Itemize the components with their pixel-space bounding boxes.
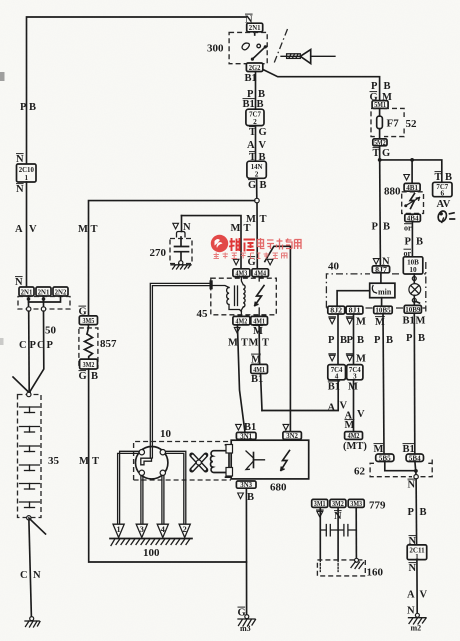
connector 3M2 interference (330, 499, 346, 508)
connector 4M1 inline (251, 364, 268, 373)
ground m2 (409, 613, 427, 632)
connector 8J2 (328, 306, 345, 315)
wire 2N2 link inside block (29, 296, 61, 302)
wire 10B9 to 5B4 (413, 313, 416, 454)
connector 7C7 pin 2 (246, 109, 264, 126)
spark plug arrow 4 (157, 524, 168, 537)
label B1 above 5B4 (403, 443, 415, 445)
wire 8J1 to 7C4-3 (353, 314, 355, 365)
resistor 857 zigzag (85, 334, 93, 359)
marker triangle + B1 above 3N1 (236, 424, 242, 430)
coil internal connections (213, 277, 259, 317)
resistor 857 dashed housing (79, 328, 98, 368)
ignition module 680 box (231, 440, 309, 479)
wire stub to capacitor 270 (181, 216, 183, 232)
label G B (248, 179, 256, 181)
label G above 3M5 (79, 305, 87, 307)
instrument cluster 40 dash-dot border (326, 262, 425, 312)
switch lever (251, 45, 267, 60)
distributor body circle (136, 447, 168, 479)
battery top terminal ring (27, 392, 31, 396)
marker triangle under 8J2 (329, 318, 335, 324)
marker triangle under 4M2 coil (234, 327, 240, 333)
key shaft hatched (287, 54, 301, 59)
marker triangle above 3N2 (283, 424, 289, 430)
ignition coil 45 dashed housing (211, 278, 276, 315)
contact breaker cam X (192, 455, 206, 470)
watermark title strokes (229, 238, 255, 252)
wire 4M1 inline down to B1 link (261, 374, 263, 411)
terminal ring a (27, 307, 31, 311)
wire top feed from battery column to ignition switch (27, 17, 247, 164)
wire 5B5 link to 5B4 (385, 462, 416, 471)
pickup coil (211, 445, 233, 477)
label T G (249, 126, 256, 128)
wire junction down to coil 4M4 (256, 203, 258, 269)
connector 2C11 pin 1 (407, 545, 427, 561)
label N under 62 (408, 478, 416, 480)
marker triangle under 3M1 (317, 512, 323, 518)
switch contact circle (257, 44, 261, 48)
wire 2C10 to connector 2N1 (26, 182, 28, 287)
node N above 2C10 (16, 153, 24, 155)
connector 4M3 (233, 268, 250, 277)
junction block dashed (starter contact group) (18, 297, 70, 310)
connector 10B5 (374, 306, 393, 315)
spark plug arrow 1 (113, 524, 124, 537)
watermark logo disk (211, 235, 228, 252)
distributor terminal bottom-right (160, 470, 165, 475)
wire mid junction down to 4B1 (411, 162, 413, 184)
HT lead double wire from coil to distributor (150, 283, 211, 458)
connector 3N1 (236, 431, 256, 440)
connector 8J7 (372, 265, 389, 274)
connector 4M2 MT (345, 431, 363, 440)
connector 4M2 coil (233, 316, 250, 325)
marker triangle above 4B1 (404, 175, 410, 181)
module pickup tab lower (226, 468, 233, 477)
marker G above 4M4 (248, 256, 256, 258)
watermark subtitle strokes (214, 253, 288, 259)
wire battery to ground (29, 520, 32, 617)
label G B under 3M2 (79, 370, 87, 372)
plug lead 1 double wire (118, 451, 140, 523)
bus wire to lamp column and 7C7-6 (380, 160, 442, 182)
marker triangle above 4M3 (233, 259, 239, 265)
wire coil 4M1 down to 4M1 inline (258, 325, 261, 365)
module transistor symbol (246, 451, 265, 470)
switch blade at battery output (29, 518, 46, 534)
fuse F7 (377, 116, 383, 129)
connector 2N1 ignition (247, 23, 263, 32)
marker triangle M above 7C4-3 (347, 355, 353, 361)
connector 2G2 (246, 63, 262, 72)
wire 3M2 down into 160 (337, 507, 339, 560)
label M above 4M2 (345, 419, 355, 421)
marker triangle + B under 3N3 (238, 493, 244, 499)
connector 10B pin 10 (403, 257, 423, 274)
plug lead 4 double wire (162, 475, 164, 523)
wire 3N3 to ground m3 (245, 488, 247, 615)
junction dot bus left (378, 158, 382, 162)
wire from cap 270 into 4M3 (182, 216, 242, 269)
label T G right (373, 147, 380, 149)
wire 2C11 to ground m2 (416, 560, 418, 614)
connector 4M1 coil (251, 316, 268, 325)
key bow (300, 50, 310, 64)
wire 10B5 to 5B5 (383, 314, 384, 454)
fuel gauge min (370, 283, 395, 298)
label G at m3 (238, 606, 246, 608)
wire 3M3 down to ground on 160 (355, 507, 357, 558)
distributor terminal top-left (139, 450, 144, 455)
node N above ignition switch (245, 13, 253, 15)
battery cells (20, 407, 40, 508)
spark plug arrow 2 (179, 524, 190, 537)
connector 4M4 (252, 268, 269, 277)
connector 3M1 (312, 499, 328, 508)
connector 2N2 (53, 287, 68, 296)
ballast element bolt with arrow (404, 194, 419, 209)
wire 10B to lamp (413, 274, 415, 284)
wire 5M2 to junction (379, 146, 381, 160)
connector 7C7 pin 6 (433, 182, 452, 197)
label G M (370, 91, 378, 93)
cap ground hatch (171, 265, 191, 269)
wire ring-b down then diagonal to battery junction (29, 311, 44, 393)
radio unit 160 dashed housing (317, 560, 365, 576)
connector cap hat (177, 232, 186, 237)
suppression capacitor a (320, 525, 338, 536)
key icon small (437, 210, 455, 223)
ground bottom-left (25, 617, 40, 627)
ground ring on 160 (355, 558, 359, 562)
wire 7C4-3 M down to 4M2 (353, 380, 355, 432)
node N below 2C10 (16, 183, 24, 185)
key shaft line (281, 55, 335, 57)
wire 2G2 down to 7C7 (255, 72, 257, 110)
connector 7C4 pin 3 (347, 365, 363, 381)
spark plug arrow 3 (136, 524, 147, 537)
wire junction to MT branch (left long run) (89, 201, 255, 316)
fuse holder 52 dashed (371, 108, 404, 136)
ground m3 (238, 615, 256, 633)
label or lower (404, 248, 412, 250)
connector 2N1 a (19, 287, 34, 296)
label M under 10B5 (375, 316, 385, 318)
connector 3N2 (283, 431, 302, 440)
ignition switch 300 housing dashed (229, 32, 267, 63)
wire 14N to junction ring (256, 178, 258, 198)
plug lead 3 double wire (141, 475, 143, 523)
module spark bolt (281, 451, 290, 471)
label M above 4M1 inline (251, 353, 261, 355)
marker triangle above 7C4-4 (329, 355, 335, 361)
wire 2G2 feed to right column (263, 70, 380, 101)
junction dot a (27, 297, 31, 301)
connector 3M5 (79, 316, 97, 325)
engine ground bar 100 hatched (110, 539, 192, 546)
HT terminal bar (210, 280, 213, 289)
junction dot b (42, 297, 46, 301)
wire 8J7 to gauge (380, 273, 382, 283)
distributor terminal top-right (160, 450, 165, 455)
connector 4B4 (405, 213, 421, 222)
label T B (249, 151, 256, 153)
connector 7C4 pin 4 (328, 365, 346, 381)
label N under 3M2 (334, 510, 342, 512)
label B1 under 7C4-4 (328, 380, 340, 382)
dotted wire tails inside 160 (320, 560, 338, 572)
wire fuse to 5M2 (379, 129, 381, 139)
label N under 2C11 (409, 562, 417, 564)
wire 7C4-4 B1 link to coil 4M1 (262, 380, 338, 411)
connector 3M2 (80, 359, 98, 369)
wire 5B4 stub (415, 462, 416, 475)
connector 10B9 (404, 305, 421, 314)
plug lead 2 double wire (166, 451, 186, 523)
wire diagonal from 3N2 riser into 4M4 (265, 246, 291, 431)
distributor 10 dashed housing (134, 442, 231, 481)
wire 5M1 to fuse (379, 108, 381, 116)
wire 3M1 down into 160 (319, 507, 321, 560)
lamp terminal ring bottom (412, 298, 416, 302)
connector 5B4 (406, 453, 423, 462)
capacitor plates (175, 237, 189, 261)
node N above 2N1 (15, 276, 23, 278)
terminal ring 62 out (414, 475, 418, 479)
coil secondary winding (243, 285, 245, 307)
wire coil 4M2 down to 3N1 (237, 325, 245, 433)
capacitor 270 dashed housing (170, 239, 192, 264)
connector 2C10 pin 1 (17, 164, 37, 182)
wire 62 down to 2C11 (415, 479, 418, 545)
wire 3M2 long run down and across to m3 ground wire (89, 369, 247, 562)
module pickup tab upper (226, 445, 233, 454)
connector 14N pin 2 (247, 161, 266, 178)
connector 5M1 (372, 100, 388, 109)
label or upper (404, 223, 412, 225)
wire ring-a down to battery junction (28, 311, 31, 393)
connector 8J1 (346, 306, 363, 315)
marker triangle + N above 8J7 (373, 259, 379, 265)
junction dot X (27, 391, 31, 395)
distributor terminal bottom-left (139, 470, 144, 475)
mechanical link dash-dot (274, 29, 288, 65)
connector 3N3 (236, 480, 256, 489)
ground hatch on 160 (351, 562, 364, 569)
marker triangle above 4M4 right (267, 259, 273, 265)
label M above 5B5 (374, 443, 384, 445)
wire 2N1 into switch (254, 32, 256, 35)
coil spark bolt (255, 286, 264, 306)
ballast resistor 880 dashed housing (402, 192, 424, 214)
wire junction down to 8J7 (P B) (379, 162, 382, 266)
wire 7C7 to 14N (255, 126, 257, 162)
terminal ring b (41, 307, 45, 311)
label M under 4M1 coil (253, 325, 263, 327)
junction ring central (255, 198, 260, 203)
scan smudge left edge (0, 72, 5, 81)
lamp terminal ring top (412, 277, 416, 281)
battery 35 dashed housing (18, 395, 42, 518)
warning lamp (409, 284, 421, 296)
wire 3M5 to resistor (87, 325, 88, 334)
connector 3M3 (348, 499, 364, 508)
label B1 B central (243, 98, 255, 100)
coil core (235, 286, 238, 306)
distributor rotor (141, 458, 152, 465)
junction dot 62 (414, 469, 418, 473)
suppression capacitor b (338, 525, 356, 536)
junction dot bus mid (410, 158, 414, 162)
wire crossing stub at junction (13, 377, 29, 393)
wire 2N1a stub (28, 296, 30, 307)
label T B right (435, 171, 442, 173)
coil primary winding (227, 288, 229, 305)
marker triangle M under 8J1 (347, 318, 353, 324)
wire lamp to 10B9 (414, 295, 419, 305)
wire 8J2 to 7C4-4 (337, 314, 339, 365)
wire gauge bottom to 10B5 (381, 298, 383, 307)
connector 2N1 b (36, 287, 51, 296)
junction block 62 dashed (370, 460, 432, 477)
label N above 2C11 (409, 535, 417, 537)
wire 4B4 down to 10B (411, 222, 413, 257)
cap ground ring (179, 261, 183, 265)
connector 4B1 (404, 183, 420, 192)
connector 5M2 (373, 138, 387, 147)
switch contact bean (242, 43, 249, 50)
connector 5B5 (376, 453, 394, 462)
marker triangle + N at 270 (173, 223, 179, 229)
wire gauge left to 8J2 (337, 291, 370, 307)
battery bottom terminal ring (27, 516, 31, 520)
wire 2N1b stub (43, 296, 45, 307)
